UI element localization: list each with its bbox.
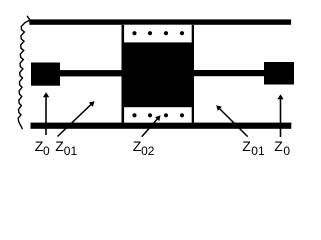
label Z02 (center): [133, 138, 155, 158]
right connector square: [264, 62, 294, 85]
left connector square: [31, 63, 60, 86]
central block (impedance step Z02): [122, 25, 195, 123]
label Z01 (left): [55, 138, 77, 158]
left Z0 up arrow: [43, 92, 49, 135]
right center conductor stub: [192, 70, 265, 76]
svg-text:Z: Z: [242, 138, 251, 154]
bottom conductor bar: [31, 123, 292, 129]
left center conductor stub: [60, 70, 125, 76]
Z02 pointer arrow: [142, 115, 161, 136]
label Z0 (right): [274, 138, 290, 158]
right Z0 up arrow: [277, 94, 283, 137]
right Z01 diagonal arrow: [216, 105, 248, 136]
svg-text:01: 01: [251, 144, 265, 158]
wavy break line: [18, 16, 30, 128]
svg-text:01: 01: [64, 144, 78, 158]
top conductor bar: [29, 19, 291, 24]
top band dots: [132, 31, 136, 35]
svg-text:0: 0: [43, 144, 50, 158]
label Z0 (left): [35, 138, 50, 158]
svg-text:02: 02: [141, 144, 155, 158]
svg-text:Z: Z: [274, 138, 283, 154]
bottom band dots: [132, 113, 136, 117]
top dielectric band: [124, 25, 192, 43]
bottom dielectric band: [124, 107, 192, 122]
label Z01 (right): [242, 138, 265, 158]
left Z01 diagonal arrow: [58, 101, 95, 136]
svg-text:0: 0: [283, 144, 290, 158]
